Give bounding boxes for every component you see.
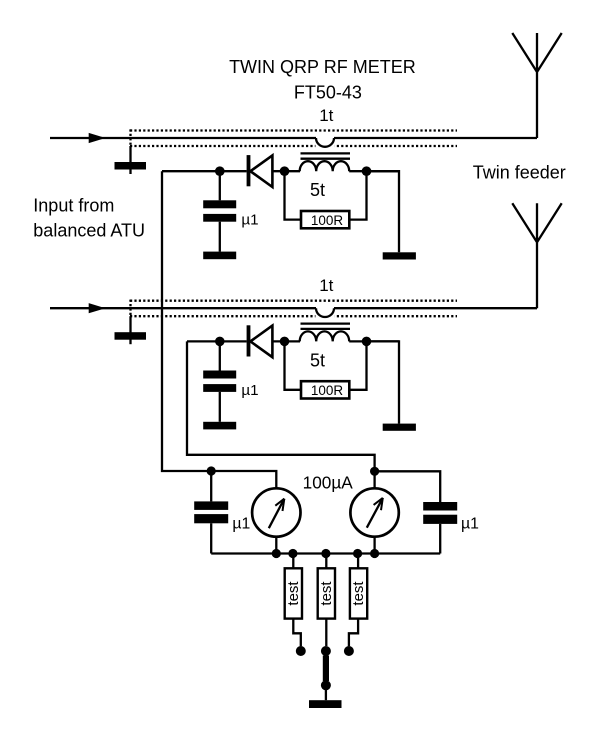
wire resistor left leg channel 2: [285, 345, 302, 390]
wire input line channel 1: [50, 137, 316, 139]
svg-text:1t: 1t: [319, 106, 333, 125]
ground feeder entry channel 2: [115, 316, 147, 344]
diode D1 channel 1: [247, 155, 273, 187]
transformer T1 core bars: [301, 153, 351, 158]
junction node meter cap left tap: [207, 466, 216, 475]
wire resistor right leg channel 2: [349, 341, 366, 389]
primary winding 1t dip of T2: [316, 308, 335, 319]
wire channel 2 output to meter M2: [187, 341, 375, 488]
svg-text:µ1: µ1: [232, 516, 250, 533]
toroid core dotted outline T2 left edge: [129, 300, 131, 317]
meter M1: [252, 488, 300, 536]
resistor test 3: [350, 568, 367, 618]
wire test 2 to test point: [325, 619, 327, 646]
wire test resistor 2 stub: [325, 554, 327, 569]
svg-text:100R: 100R: [311, 213, 344, 228]
junction node meter 2 top: [370, 467, 379, 476]
junction node test 1 top: [288, 549, 297, 558]
toroid core dotted outline T2 top: [130, 300, 457, 302]
wire meter M2 bottom stub: [373, 537, 375, 554]
node label Input from balanced ATU: [33, 195, 145, 240]
wire meter 2 to right capacitor: [375, 471, 441, 502]
test point node 2: [321, 646, 331, 656]
junction node test 2 top: [321, 549, 330, 558]
svg-text:TWIN QRP RF METER: TWIN QRP RF METER: [229, 57, 416, 77]
svg-text:balanced ATU: balanced ATU: [33, 220, 145, 240]
junction node channel 2 capacitor tap: [215, 337, 225, 347]
svg-text:5t: 5t: [310, 350, 325, 370]
toroid core dotted outline T2 bottom: [130, 315, 457, 317]
svg-text:FT50-43: FT50-43: [294, 82, 362, 102]
wire test resistor 3 stub: [357, 554, 359, 569]
test point node 3: [344, 646, 354, 656]
ground channel 1 right: [383, 252, 416, 259]
toroid core dotted outline T1 top: [130, 129, 457, 131]
svg-text:µ1: µ1: [241, 382, 258, 399]
wire input line channel 2: [50, 307, 316, 309]
wire to ground channel 2 right: [367, 341, 400, 423]
svg-text:100R: 100R: [311, 383, 344, 398]
resistor 100R channel 2: [301, 381, 349, 398]
wire feeder line channel 1 to antenna: [334, 137, 537, 139]
capacitor C3 µ1 meter left: [194, 471, 228, 554]
junction node test 3 top: [353, 549, 362, 558]
wire channel 1 detector rail: [162, 170, 399, 172]
svg-text:test: test: [350, 581, 367, 606]
resistor test 2: [318, 568, 335, 618]
ground feeder entry channel 1: [115, 146, 147, 174]
test point node 4 link bottom: [321, 680, 331, 690]
junction node meter 1 bottom: [272, 549, 281, 558]
wire to ground channel 1 right: [367, 171, 400, 252]
transformer T2 core bars: [301, 324, 351, 329]
arrowhead input channel 1: [89, 133, 106, 143]
wire resistor right leg channel 1: [349, 171, 366, 219]
diode D2 channel 2: [247, 325, 273, 357]
ground channel 2 right: [383, 424, 416, 431]
meter M2: [350, 488, 398, 536]
antenna 1: [512, 33, 561, 138]
svg-text:test: test: [318, 581, 335, 606]
capacitor C2 µ1 channel 2: [203, 345, 236, 422]
svg-text:test: test: [285, 581, 302, 606]
wire channel 1 output to meter M1: [162, 171, 276, 488]
shorting link bar: [323, 656, 329, 682]
capacitor C1 µ1 channel 1: [203, 175, 236, 252]
wire bottom rail: [211, 552, 440, 554]
svg-text:100µA: 100µA: [303, 472, 354, 492]
primary winding 1t dip of T1: [316, 138, 335, 149]
arrowhead input channel 2: [89, 303, 106, 313]
svg-text:5t: 5t: [310, 180, 325, 200]
ground capacitor C2: [203, 422, 236, 430]
resistor 100R channel 1: [301, 211, 349, 228]
toroid core dotted outline T1 bottom: [130, 145, 457, 147]
capacitor C4 µ1 meter right: [423, 502, 457, 554]
wire test resistor 1 stub: [292, 554, 294, 569]
junction node D2 output: [280, 337, 290, 347]
wire meter M1 bottom stub: [275, 537, 277, 554]
resistor test 1: [285, 568, 302, 618]
wire channel 2 detector rail: [187, 340, 399, 342]
svg-text:µ1: µ1: [461, 516, 479, 533]
ground main: [309, 700, 342, 708]
wire test 3 to test point: [349, 619, 358, 647]
wire feeder line channel 2 to antenna: [334, 307, 537, 309]
wire test 1 to test point: [293, 619, 301, 647]
antenna 2: [512, 203, 561, 308]
svg-text:1t: 1t: [319, 276, 333, 295]
junction node D1 output: [280, 166, 290, 176]
junction node coil right channel 1: [362, 166, 372, 176]
junction node channel 1 capacitor tap: [215, 166, 225, 176]
test point node 1: [296, 646, 306, 656]
toroid core dotted outline T1 left edge: [129, 129, 131, 146]
svg-text:Input from: Input from: [33, 195, 114, 215]
wire link to ground: [325, 690, 327, 700]
junction node meter 2 bottom: [370, 549, 379, 558]
secondary winding 5t of T2: [300, 331, 350, 341]
wire resistor left leg channel 1: [285, 175, 302, 220]
secondary winding 5t of T1: [300, 161, 350, 171]
junction node coil right channel 2: [362, 337, 372, 347]
ground capacitor C1: [203, 252, 236, 260]
svg-text:µ1: µ1: [241, 212, 258, 229]
svg-text:Twin feeder: Twin feeder: [473, 163, 566, 183]
